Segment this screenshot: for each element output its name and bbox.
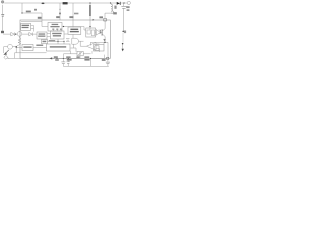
comparator A2 (points left): [86, 42, 96, 50]
wire onctrl out: [33, 46, 47, 48]
wire y13: [22, 12, 42, 14]
circle current source A: [17, 32, 22, 37]
wire vertical x90.5: [90, 58, 92, 66]
emitter arrowhead: [104, 39, 106, 41]
wire y47 comp node: [4, 46, 16, 48]
pin square SWC: [104, 18, 107, 21]
wire x104 down: [103, 42, 105, 44]
wire ff to buffer: [95, 31, 98, 33]
B1 text: [39, 33, 46, 34]
cap C2b plates: [67, 62, 70, 64]
box reference regulator: [68, 27, 81, 34]
transistor Q1 emitter: [102, 34, 105, 43]
diode D1: [117, 2, 120, 5]
smallbox text: [43, 41, 47, 43]
output cap plates: [121, 7, 126, 9]
box transistor T2: [77, 51, 83, 55]
arrowhead on x60: [59, 13, 61, 15]
label right of coil: [113, 12, 117, 14]
adjust arrow: [5, 50, 9, 54]
wire bottom terminal rail y58.4: [7, 57, 106, 59]
label above wire y41: [49, 40, 55, 42]
box B1: [37, 32, 47, 39]
wire refreg down to gate: [72, 34, 74, 38]
transistor T2 mark: [78, 52, 82, 55]
wire x92 stub: [91, 51, 93, 54]
wire onctrl in: [16, 46, 22, 48]
battery plus marks: [1, 31, 4, 33]
diode D2 small: [11, 32, 15, 36]
labels above bottom rail: [54, 56, 58, 58]
box B2: [51, 31, 65, 39]
capacitor C2 stem: [62, 58, 64, 66]
gate G1: [72, 38, 79, 44]
wire buffer out: [100, 31, 102, 33]
box oscillator: [48, 23, 62, 32]
small left arrow on bottom rail: [50, 57, 53, 59]
B2 text: [52, 33, 61, 34]
box right nest inner: [95, 46, 99, 51]
box tON controller: [47, 44, 71, 51]
bottom-left terminal: [4, 55, 8, 59]
pin label x73: [69, 16, 73, 18]
pin label x105: [99, 16, 103, 18]
open node square bottom right: [107, 57, 109, 59]
label near x34 y9: [34, 9, 37, 11]
circle current source B: [8, 44, 13, 49]
transistor Q2 marks: [100, 30, 102, 34]
battery plates: [1, 14, 4, 16]
cap C2 plates: [61, 62, 65, 64]
input terminal VIN+: [1, 1, 4, 4]
capacitor C2b stem: [67, 58, 69, 66]
resistor Rsc dark bar: [89, 5, 90, 16]
label on wire y13: [26, 11, 31, 13]
wire x73.5 stub: [71, 44, 77, 52]
box right nest outer: [94, 45, 105, 52]
wire x108 down: [107, 42, 109, 58]
wire x70.5 stub: [70, 51, 72, 54]
wire y42.5: [90, 41, 108, 43]
wire comp inputs right: [96, 44, 100, 52]
wire inductor bottom elbow: [105, 13, 112, 18]
flip-flop inner cells: [87, 30, 90, 34]
resistor hatch below refreg: [66, 39, 70, 42]
arrowhead on line y20: [93, 19, 95, 21]
wire y41 row: [48, 39, 65, 44]
dark elements: [3, 2, 124, 60]
resistor R1 zigzag: [16, 38, 21, 46]
wire x90 lower: [89, 16, 91, 30]
wire through csA: [19, 31, 21, 38]
wire B1-B2 links: [47, 34, 51, 37]
wire comparator out elbow: [80, 41, 86, 46]
wire drop x22 to Vcc: [21, 3, 23, 13]
label VIN dark on rail: [63, 2, 68, 4]
transistor Q1 collector: [102, 21, 105, 31]
labels below bottom rail: [55, 59, 59, 61]
wire bottom ground rail y66.3: [63, 65, 109, 67]
capacitor C3 stem: [107, 59, 109, 66]
label right of load arrow: [124, 31, 126, 34]
wire y53.8: [64, 53, 91, 55]
box flip-flop: [86, 28, 96, 37]
pin label x60: [56, 16, 60, 18]
junction dots: [15, 2, 125, 59]
inductor L1 coil: [111, 4, 114, 13]
wire output cap column: [122, 3, 124, 31]
wire left down to terminal: [3, 47, 5, 53]
wire internal y21.5: [21, 21, 42, 23]
wire top rail after diode: [121, 2, 127, 4]
transistor Q1 base bar: [101, 29, 103, 35]
buffer triangle: [96, 30, 100, 36]
refreg text: [70, 29, 78, 30]
label right of out cap: [126, 6, 129, 8]
wire drop x90: [89, 3, 91, 5]
IC outline U1: [20, 20, 110, 58]
wire node to y53 rail: [15, 48, 47, 59]
wire B2 out: [64, 33, 68, 35]
wire drop x73: [72, 3, 74, 20]
wire top rail: [4, 2, 116, 4]
pin stub x104.5: [104, 55, 106, 59]
box small above longbox: [42, 40, 48, 44]
text smudges: [1, 2, 130, 61]
pin label x42: [38, 17, 42, 19]
label near diode cathode col: [114, 6, 116, 9]
output terminal: [127, 1, 130, 4]
wire inductor top connection: [110, 3, 112, 4]
wire leftbox out upper: [31, 26, 34, 32]
cap C3 plates: [106, 62, 110, 64]
box on-ctrl: [22, 45, 33, 51]
wire drop x60: [59, 3, 61, 20]
wire oscillator output: [62, 27, 86, 31]
wire B2 top stubs: [54, 29, 62, 31]
onctrl text: [23, 46, 31, 47]
oscbox text: [52, 24, 59, 25]
wire x63.5 up: [63, 54, 65, 59]
wire load arrow line: [122, 33, 124, 43]
wire left battery column: [2, 5, 4, 33]
wire refreg pin drop: [72, 20, 74, 28]
wire x42 into IC: [42, 13, 48, 27]
label above onctrl wire: [36, 45, 43, 47]
box current limit: [21, 24, 31, 31]
wire x80 down: [79, 56, 81, 59]
B2 top pin labels: [52, 29, 54, 30]
load arrowhead: [122, 49, 124, 52]
wire x90 comp column: [89, 42, 91, 45]
diode D3 small: [29, 33, 33, 36]
wire gate output: [79, 40, 84, 42]
wire y34 from battery to IC: [3, 33, 37, 35]
leftbox text: [22, 25, 30, 26]
longbox text: [50, 46, 66, 47]
wire leftbox out lower: [31, 28, 34, 30]
